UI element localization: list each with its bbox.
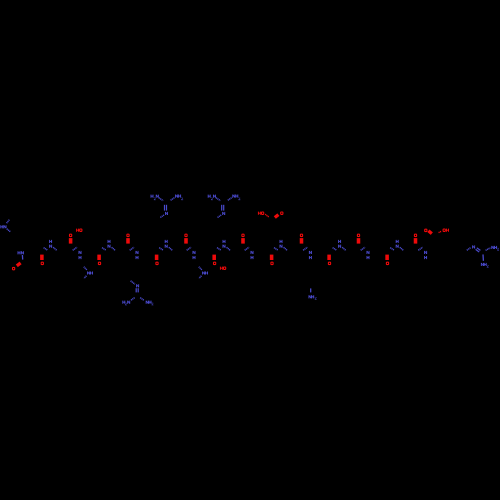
carboxyl bond O-C (hashed) — [265, 214, 269, 217]
hydroxyl H-O (serine 2, below backbone) — [220, 267, 223, 270]
carbonyl C=O (O below) B6 — [327, 255, 331, 260]
guanidinium G3: N=C double bond — [135, 288, 137, 292]
carbonyl C=O (O above) A4 — [241, 234, 244, 238]
C-terminal C=O double bond — [427, 229, 433, 234]
guanidinium G4: bond C-NH2 down — [482, 254, 484, 260]
guanidinium G1: =N- label — [165, 212, 168, 215]
amide N-H (backbone, lower) L5 — [309, 251, 312, 254]
indole N-H W2: NH label — [202, 271, 205, 274]
amide N-H (backbone, lower) L2 — [135, 251, 138, 254]
C-terminal bond C-OH (hashed) — [439, 231, 442, 232]
carboxyl HO-C=O (aspartate): HO label — [258, 212, 261, 215]
guanidinium G2: bond N-CH2 (hashed) — [217, 215, 221, 218]
C-terminal OH label — [443, 228, 446, 232]
amide N-H (backbone, upper) U7 — [396, 240, 399, 243]
guanidinium G3: H2N label — [122, 301, 125, 304]
carboxyl O=C-OH (C-terminal): O label — [424, 229, 427, 233]
amide N-H (backbone, upper) U1 — [49, 240, 52, 243]
carboxyl O label — [280, 211, 283, 215]
guanidinium G4: bond C-NH2 upper right (hashed) — [486, 248, 491, 251]
guanidinium G3: bond C-NH2 left (hashed) — [131, 298, 135, 301]
amide N-H (backbone, lower) L3 — [192, 251, 195, 254]
lysine CH2-NH2 bond — [310, 288, 312, 292]
guanidinium G4: =N- label — [472, 245, 475, 248]
guanidinium G1: bond N-CH2 (hashed) — [160, 215, 164, 218]
lysine NH2 label — [308, 295, 311, 298]
carboxyl C=O double bond — [274, 213, 280, 218]
left terminal amide H-N — [18, 251, 21, 254]
guanidinium G2: NH2 label — [232, 195, 235, 198]
amide N-H (backbone, upper) U6 — [338, 240, 341, 243]
amide N-H (backbone, lower) L4 — [250, 251, 253, 254]
indole N-H W2: ring bond up (hashed) — [199, 267, 202, 270]
left terminal O label — [12, 267, 15, 270]
amide N-H (backbone, upper) U2 — [108, 240, 111, 243]
amide N-H (backbone, upper) U3 — [165, 240, 168, 243]
guanidinium group (top) G2: H2N label — [208, 195, 211, 198]
carbonyl C=O (O below) B7 — [385, 255, 389, 260]
guanidinium G3: bond C-NH2 right (hashed) — [140, 298, 144, 301]
carbonyl C=O (O below) B3 — [155, 255, 159, 260]
carbonyl C=O (O above) A7 — [414, 234, 417, 238]
carbonyl C=O (O above) A5 — [300, 234, 303, 238]
guanidinium G2: bond C-NH2 (hashed) — [228, 197, 232, 200]
carbonyl C=O (O above) A1 — [69, 234, 72, 238]
carbonyl C=O (O above) A2 — [126, 234, 129, 238]
amide N-H (backbone, lower) L1 — [78, 251, 81, 254]
amide N-H (backbone, upper) U4 — [223, 240, 226, 243]
hydroxyl H-O (serine 1, above backbone) — [76, 229, 79, 232]
guanidinium G1: bond C-NH2 (hashed) — [171, 197, 175, 200]
guanidinium G3: NH2 label — [146, 301, 149, 304]
carbonyl C=O (O above) A3 — [184, 234, 187, 238]
guanidinium G3: =N- label — [136, 284, 139, 287]
amide N-H (backbone, lower) L7 — [424, 251, 427, 254]
indole N-H W1: NH label — [87, 271, 90, 274]
carbonyl C=O (O below) B2 — [97, 255, 101, 260]
guanidinium G2: bond H2N-C (hashed) — [216, 198, 220, 201]
guanidinium G1: NH2 label — [175, 195, 178, 198]
indole N-H W1: ring bond up (hashed) — [84, 267, 87, 270]
guanidinium G4: NH2 label (below) — [481, 263, 484, 266]
guanidinium G4: N=C double bond — [476, 249, 480, 252]
indole N-H W1: ring bond down (hashed) — [84, 276, 86, 279]
carbonyl C=O (O below) B1 — [40, 255, 44, 260]
amide N-H (backbone, upper) U5 — [280, 240, 283, 243]
guanidinium group (right) G4: bond CH2-N (hashed) — [467, 248, 471, 251]
carbonyl C=O (O below) B4 — [212, 255, 216, 260]
left terminal C=O double bond — [16, 262, 22, 268]
guanidinium group (top) G1: H2N label — [151, 195, 154, 198]
guanidinium G2: =N- label — [222, 212, 225, 215]
guanidinium G2: C=N double bond — [221, 205, 223, 211]
guanidinium G4: NH2 label (right) — [491, 246, 494, 249]
guanidinium group (bottom) G3: bond CH2-N (hashed) — [131, 281, 135, 284]
amide N-H (backbone, lower) L6 — [366, 251, 369, 254]
guanidinium G1: bond H2N-C (hashed) — [159, 198, 163, 201]
ring N-H (left edge, pyrrolidine) — [0, 225, 3, 228]
carbonyl C=O (O below) B5 — [270, 255, 274, 260]
indole N-H W2: ring bond down (hashed) — [199, 276, 201, 279]
guanidinium G1: C=N double bond — [164, 205, 166, 211]
carbonyl C=O (O above) A6 — [357, 234, 360, 238]
